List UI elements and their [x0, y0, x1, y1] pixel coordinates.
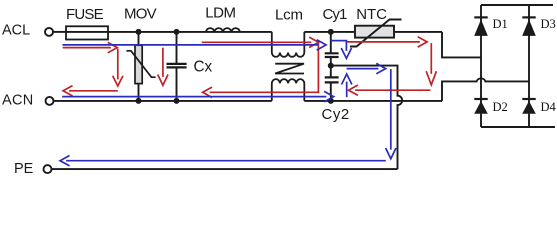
- blue path bottom line: [63, 96, 326, 98]
- red path top-left along ACL: [64, 47, 111, 49]
- terminal ACL: [45, 28, 53, 36]
- wire through fuse and to Lcm: [66, 31, 272, 33]
- blue path along PE to terminal: [67, 160, 385, 162]
- capacitor Cx plates: [167, 64, 187, 68]
- red arrowhead left toward Cy2: [349, 85, 358, 95]
- choke Lcm core Z: [275, 64, 304, 74]
- choke Lcm top winding: [272, 32, 305, 57]
- red path top along LDM Lcm: [203, 41, 311, 43]
- wire Lcm to NTC to corner: [304, 31, 442, 33]
- capacitor Cy2 leads: [330, 66, 332, 101]
- blue path down to PE: [390, 70, 392, 149]
- blue arrowhead down into Cy1: [342, 49, 352, 59]
- node top MOV: [136, 29, 142, 35]
- svg-text:ACL: ACL: [2, 22, 30, 38]
- node top Cx: [174, 29, 180, 35]
- svg-text:D3: D3: [541, 17, 556, 31]
- red path down left of MOV: [117, 50, 119, 79]
- red arrowhead left to ACN: [63, 86, 72, 96]
- svg-text:Cy1: Cy1: [323, 6, 348, 23]
- wire PE line: [52, 168, 398, 170]
- blue path up through Cy2: [346, 83, 348, 97]
- node Cy midpoint: [328, 63, 334, 69]
- svg-text:Cx: Cx: [194, 58, 213, 75]
- red path bottom back toward Cy2: [356, 89, 430, 91]
- svg-text:ACN: ACN: [2, 93, 34, 109]
- red path top under NTC: [347, 41, 419, 43]
- svg-text:Lcm: Lcm: [275, 6, 303, 23]
- blue arrowhead right before Cy2 node: [325, 92, 334, 102]
- varistor MOV body: [135, 45, 142, 83]
- bridge left leg: [480, 5, 482, 127]
- blue path top line: [63, 44, 318, 46]
- diode D4: [522, 99, 536, 114]
- capacitor Cy1 leads: [330, 32, 332, 66]
- terminal PE: [44, 165, 52, 173]
- fuse F rectangle: [66, 26, 108, 39]
- blue arrowhead up at Cy2: [342, 74, 352, 84]
- red arrowhead down left of MOV: [113, 77, 123, 87]
- diode D2: [474, 99, 488, 114]
- capacitor Cx leads: [176, 32, 178, 101]
- diode D3: [522, 17, 536, 36]
- wire bottom corner up to lower stub with hop over left bridge leg: [442, 78, 529, 101]
- svg-text:Cy2: Cy2: [322, 106, 350, 123]
- wire ACL to fuse: [53, 31, 66, 33]
- node bottom MOV: [136, 98, 142, 104]
- bridge right leg: [528, 5, 530, 127]
- wire bottom line Lcm to corner: [304, 100, 442, 102]
- wire Cy mid to PE vertical with hop over ACN wire: [331, 66, 402, 170]
- red path bottom back under Lcm: [211, 91, 319, 93]
- node bottom Cy2: [328, 98, 334, 104]
- bridge bottom rail: [481, 126, 555, 128]
- node bottom Cx: [174, 98, 180, 104]
- wire corner down to bridge upper stub: [442, 32, 481, 58]
- svg-text:FUSE: FUSE: [66, 6, 104, 23]
- blue arrowhead right at PE drop: [377, 64, 386, 74]
- svg-text:NTC: NTC: [356, 6, 387, 23]
- svg-text:D2: D2: [493, 100, 508, 114]
- wire ACN bottom line: [54, 100, 272, 102]
- red arrowhead right at MOV left: [109, 43, 118, 53]
- red path down through Cx: [162, 49, 164, 77]
- svg-text:LDM: LDM: [205, 5, 235, 22]
- red arrowhead right before Cy1: [310, 38, 319, 48]
- capacitor Cy2 plates: [325, 77, 339, 82]
- thermistor NTC diagonal: [350, 20, 402, 47]
- blue arrowhead right before Cy1: [317, 40, 326, 50]
- blue arrowhead left at PE terminal: [60, 156, 69, 166]
- capacitor Cy1 plates: [325, 53, 339, 57]
- svg-text:D4: D4: [541, 100, 557, 114]
- blue jog above Cy1: [332, 41, 347, 50]
- red arrowhead down at Cx: [158, 75, 168, 85]
- node top Cy1: [328, 29, 334, 35]
- red path down after Lcm: [317, 44, 319, 92]
- svg-text:D1: D1: [493, 17, 508, 31]
- red arrowhead down before bridge: [427, 72, 437, 85]
- svg-text:PE: PE: [14, 161, 34, 177]
- red arrowhead left under LDM: [203, 88, 212, 98]
- varistor MOV diagonal: [126, 51, 155, 77]
- varistor MOV leads: [138, 32, 140, 101]
- blue path mid toward PE drop: [348, 68, 378, 70]
- bridge top rail: [481, 4, 553, 6]
- red path down before bridge: [430, 44, 432, 73]
- blue arrowhead down at PE: [386, 149, 396, 159]
- svg-text:MOV: MOV: [124, 6, 157, 23]
- thermistor NTC body: [355, 26, 394, 38]
- inductor LDM humps: [206, 28, 240, 32]
- red path bottom toward ACN: [70, 90, 117, 92]
- terminal ACN: [46, 97, 54, 105]
- choke Lcm bottom winding: [272, 79, 305, 101]
- diode D1: [474, 17, 488, 36]
- red arrowhead right after NTC: [418, 37, 427, 47]
